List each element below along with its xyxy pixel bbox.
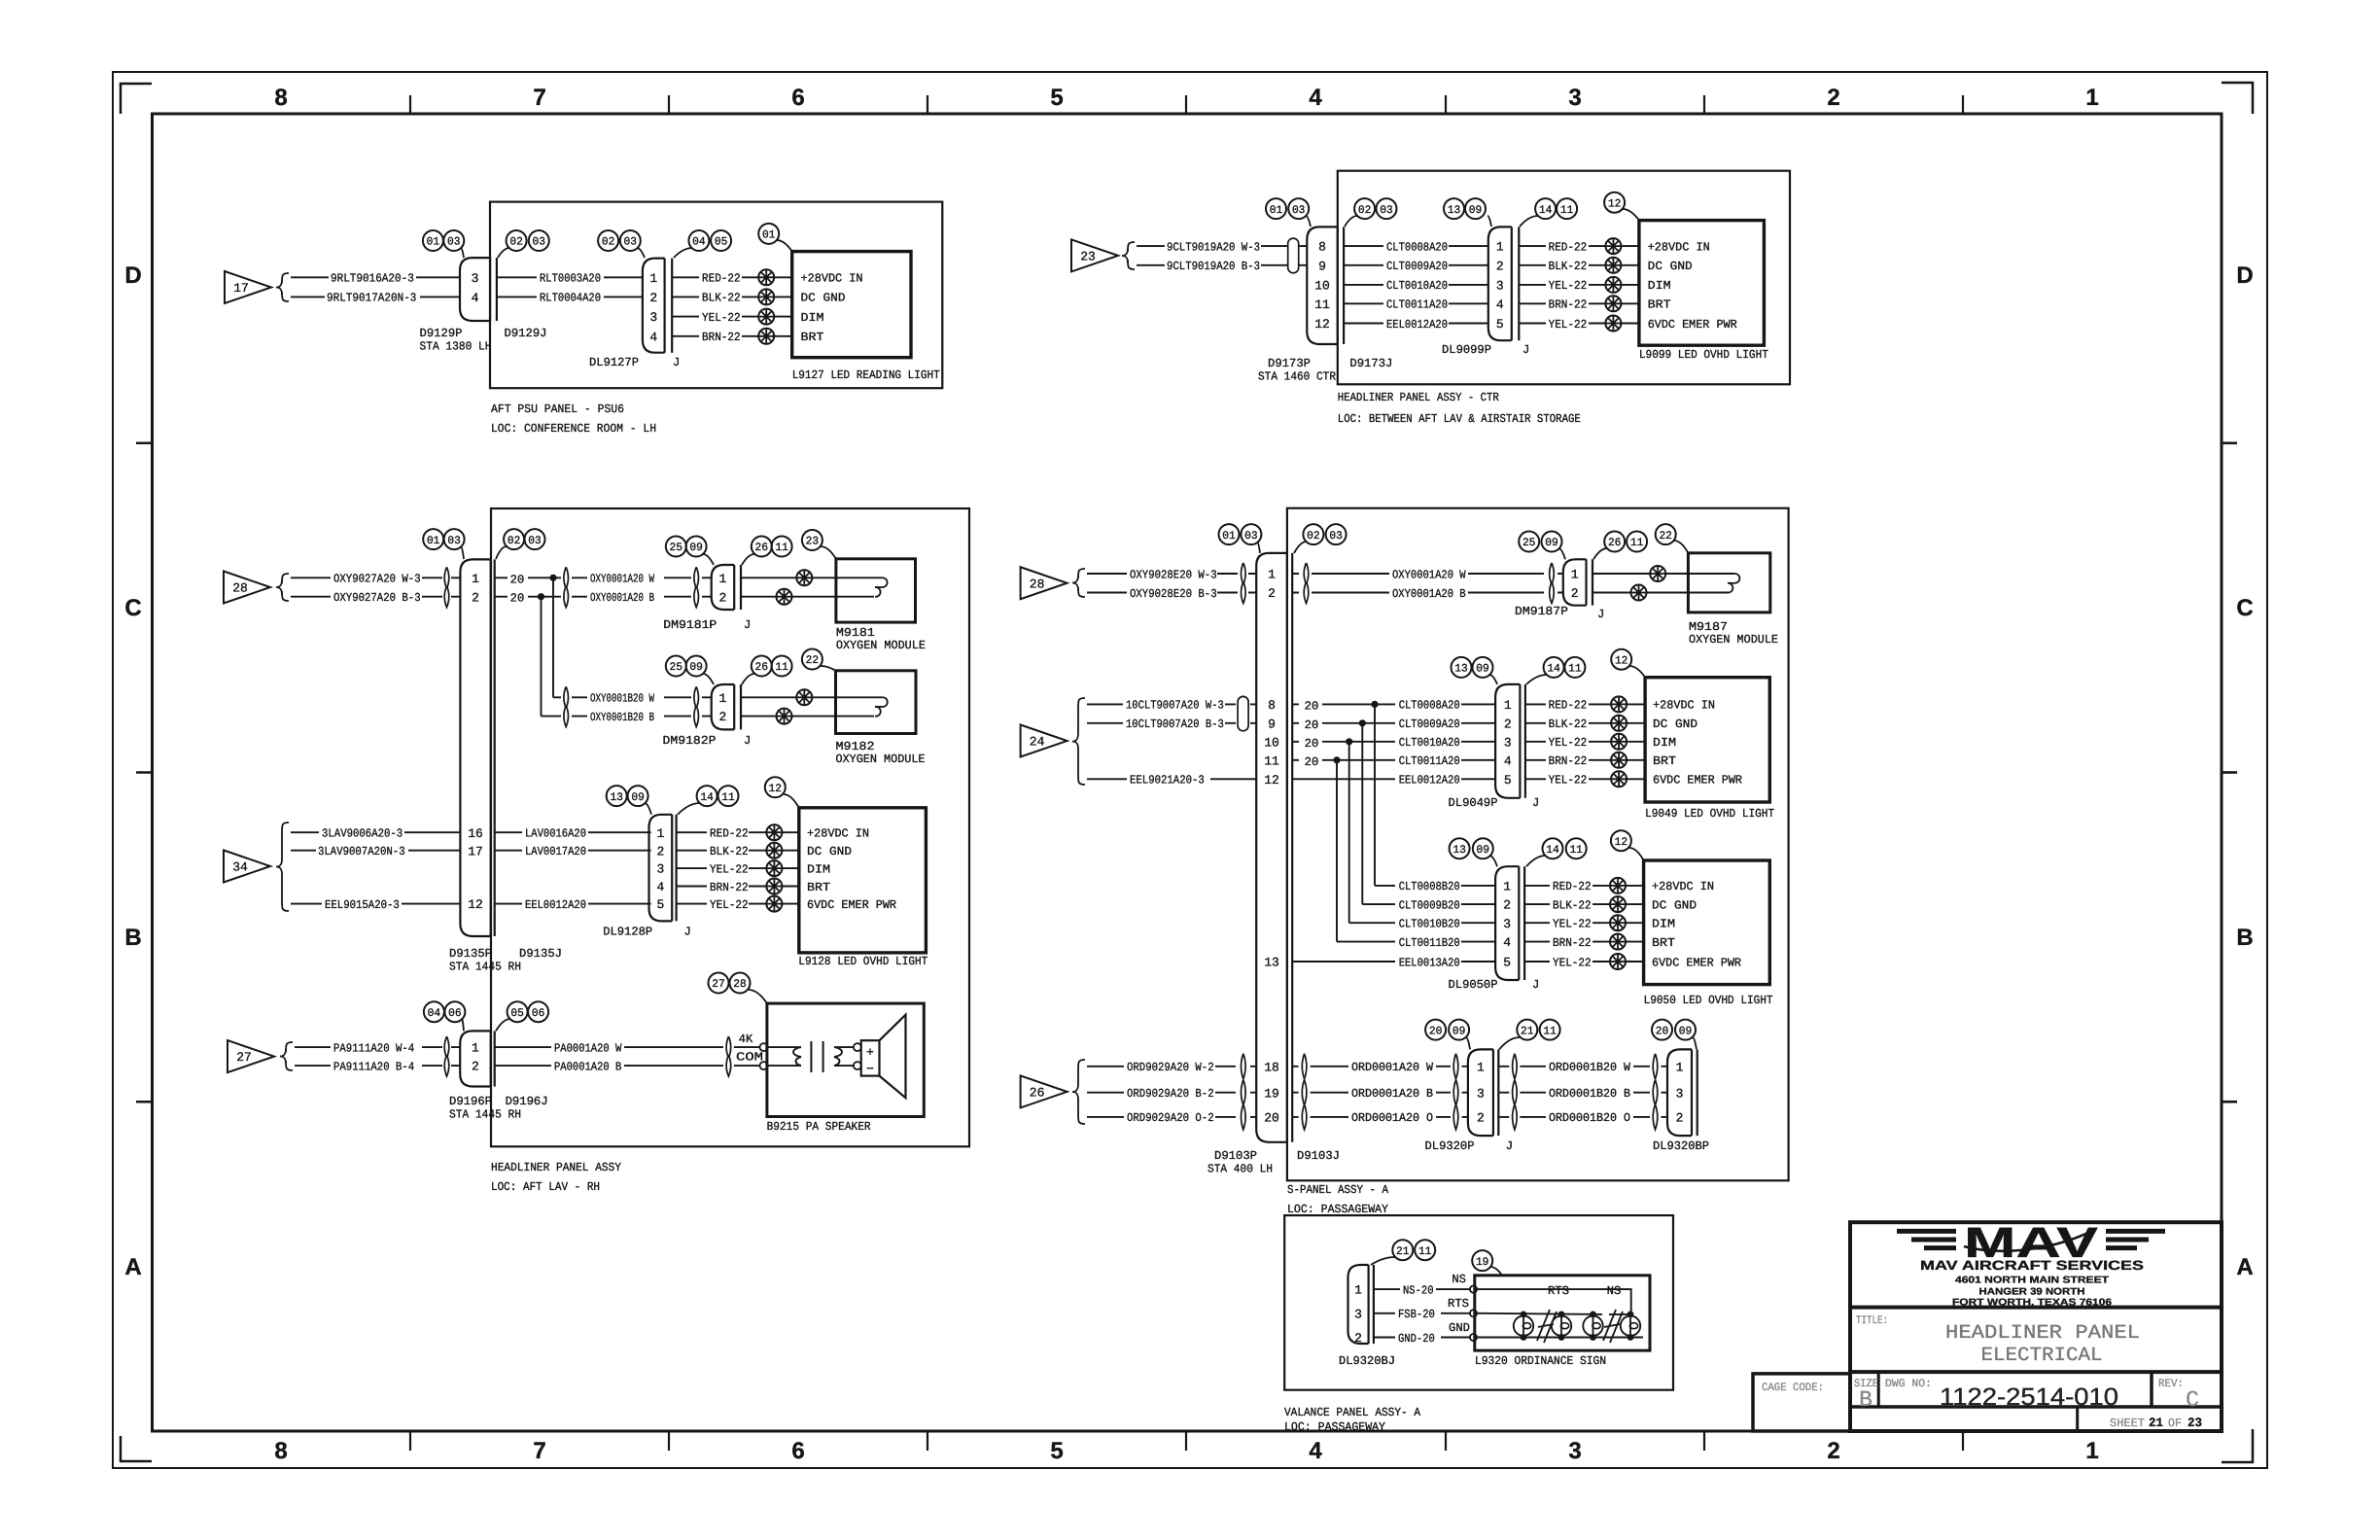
svg-text:DIM: DIM xyxy=(807,862,830,876)
logo address line 3 xyxy=(1952,1298,2113,1309)
svg-text:FORT WORTH, TEXAS 76106: FORT WORTH, TEXAS 76106 xyxy=(1952,1298,2113,1309)
wire 9RLT9017A20N-3 xyxy=(291,292,460,305)
label DM9182P xyxy=(663,734,717,748)
label D9103P STA 400 LH xyxy=(1207,1149,1273,1176)
svg-text:BLK-22: BLK-22 xyxy=(710,845,749,858)
svg-text:09: 09 xyxy=(1476,663,1489,676)
terminal B9215 COM xyxy=(760,1062,768,1069)
wire OXY0001A20 W right xyxy=(1292,568,1563,581)
wire to M9181 pin1 xyxy=(741,570,882,585)
wire PA0001A20 W xyxy=(495,1041,759,1055)
wire CLT0008A20 xyxy=(1344,240,1488,254)
twist symbol PA0001A20 pair xyxy=(726,1036,731,1076)
ref circles 27 28 at B9215 xyxy=(709,973,767,1004)
svg-text:1: 1 xyxy=(472,572,479,586)
svg-text:D9173P: D9173P xyxy=(1268,357,1311,370)
svg-text:1: 1 xyxy=(1504,698,1512,713)
wire to M9182 pin1 xyxy=(741,689,882,705)
svg-text:DL9127P: DL9127P xyxy=(589,356,639,369)
ref circles 14 11 at DL9099P J xyxy=(1520,198,1577,227)
svg-text:VALANCE PANEL ASSY- A: VALANCE PANEL ASSY- A xyxy=(1284,1406,1421,1419)
wire NS rail xyxy=(1477,1289,1631,1337)
svg-text:11: 11 xyxy=(1630,537,1644,549)
wire BLK-22 to L9050 xyxy=(1524,898,1644,912)
ref circle 12 at L9050 xyxy=(1611,830,1644,860)
wire EEL0013A20 xyxy=(1292,956,1495,969)
label DL9050P xyxy=(1449,978,1498,992)
label DM9181P xyxy=(663,618,717,632)
svg-text:STA 1460 CTR: STA 1460 CTR xyxy=(1258,370,1336,384)
svg-text:BRN-22: BRN-22 xyxy=(710,881,749,894)
wire YEL-22 to L9128 xyxy=(677,862,799,876)
svg-text:03: 03 xyxy=(1244,530,1258,542)
shield symbol 9CLT9019A20 pair xyxy=(1288,238,1299,273)
svg-text:24: 24 xyxy=(1030,735,1045,750)
device box M9182 xyxy=(836,671,917,734)
svg-text:RED-22: RED-22 xyxy=(1549,699,1588,713)
wire CLT0010A20 xyxy=(1344,279,1488,293)
device box M9187 xyxy=(1688,553,1769,612)
corner trim mark bottom-left xyxy=(121,1436,152,1461)
svg-text:20: 20 xyxy=(1656,1025,1669,1037)
svg-text:8: 8 xyxy=(274,85,287,111)
svg-text:DIM: DIM xyxy=(1652,918,1675,931)
svg-text:27: 27 xyxy=(236,1050,252,1065)
logo address line 1 xyxy=(1955,1276,2109,1286)
svg-text:4: 4 xyxy=(1503,935,1511,950)
ref circles 25 09 at DM9181P xyxy=(666,537,714,566)
label J at DL9320P xyxy=(1506,1139,1513,1153)
terminal label RTS xyxy=(1448,1297,1469,1311)
wire 10CLT9007A20 B-3 xyxy=(1087,717,1256,731)
assembly box AFT PSU PANEL - PSU6 xyxy=(490,202,942,389)
wire OXY9028E20 W-3 xyxy=(1087,568,1256,581)
svg-text:26: 26 xyxy=(755,661,769,674)
svg-text:LOC: AFT LAV - RH: LOC: AFT LAV - RH xyxy=(491,1180,600,1194)
label J at DL9049P xyxy=(1532,796,1539,810)
svg-text:01: 01 xyxy=(762,229,776,242)
title block h-divider logo/title xyxy=(1850,1306,2222,1310)
ref circle 12 at L9128 xyxy=(765,777,799,808)
label D9135P STA 1445 RH xyxy=(449,947,521,974)
svg-text:14: 14 xyxy=(1547,663,1560,676)
flag 17 xyxy=(225,271,271,303)
svg-text:25: 25 xyxy=(1522,537,1536,549)
wire EEL0012A20 xyxy=(1344,318,1488,332)
svg-text:20: 20 xyxy=(510,592,525,606)
svg-text:ORD0001A20 O: ORD0001A20 O xyxy=(1351,1111,1433,1125)
svg-text:TITLE:: TITLE: xyxy=(1856,1314,1888,1327)
svg-text:1: 1 xyxy=(719,572,727,586)
svg-text:20: 20 xyxy=(1305,737,1319,751)
label M9181 OXYGEN MODULE xyxy=(836,626,926,652)
twist symbol OXY0001A20 at labels xyxy=(564,567,569,607)
transformer B9215 primary xyxy=(768,1047,802,1066)
svg-text:STA 400 LH: STA 400 LH xyxy=(1207,1163,1273,1176)
connector DL9320P xyxy=(1468,1049,1498,1136)
wire RLT0003A20 xyxy=(497,272,643,286)
svg-text:EEL0012A20: EEL0012A20 xyxy=(1399,774,1460,787)
svg-text:PA0001A20 W: PA0001A20 W xyxy=(554,1041,622,1055)
ref circles 02 03 at D9129J xyxy=(498,230,549,258)
svg-text:CLT0008A20: CLT0008A20 xyxy=(1386,240,1448,254)
label J at DM9182P xyxy=(744,734,751,748)
device box B9215 xyxy=(767,1003,924,1116)
label D9173J xyxy=(1349,357,1392,370)
lamp YEL-22 L9127 xyxy=(758,309,774,325)
svg-text:ORD0001B20 W: ORD0001B20 W xyxy=(1549,1061,1631,1074)
caption S-PANEL ASSY - A xyxy=(1287,1183,1389,1216)
svg-text:CLT0008B20: CLT0008B20 xyxy=(1399,880,1460,893)
wire YEL-22 to L9128 xyxy=(677,898,799,912)
connector D9129P / D9129J xyxy=(460,258,497,321)
svg-text:MAV AIRCRAFT SERVICES: MAV AIRCRAFT SERVICES xyxy=(1920,1258,2144,1273)
svg-text:6: 6 xyxy=(791,1438,804,1464)
svg-text:1122-2514-010: 1122-2514-010 xyxy=(1940,1383,2118,1411)
ref circles 26 11 at DM9182P J xyxy=(742,656,792,685)
wire PA9111A20 W-4 xyxy=(295,1041,460,1055)
svg-text:CLT0011A20: CLT0011A20 xyxy=(1386,298,1448,312)
label D9135J xyxy=(519,947,562,961)
label DL9128P xyxy=(603,926,652,939)
wire LAV0017A20 xyxy=(495,845,651,858)
ref circles 04 06 at D9196P xyxy=(424,1001,466,1031)
title block h-divider dwg/sheet xyxy=(1850,1405,2222,1409)
svg-text:03: 03 xyxy=(447,535,461,547)
wire gauge 20 pin8 xyxy=(1292,699,1375,713)
assembly box HEADLINER PANEL ASSY - CTR xyxy=(1338,171,1790,385)
svg-text:D9129J: D9129J xyxy=(505,327,547,340)
svg-text:12: 12 xyxy=(769,783,783,795)
lamp YEL-22 L9099 xyxy=(1605,316,1621,332)
lamp BLK-22 L9099 xyxy=(1605,258,1621,273)
lamp BRN-22 L9049 xyxy=(1611,752,1627,768)
ref circles 01 03 at D9129P xyxy=(423,230,464,258)
svg-text:BRT: BRT xyxy=(801,331,824,344)
label CAGE CODE xyxy=(1762,1382,1824,1394)
wire YEL-22 to L9050 xyxy=(1524,918,1644,931)
svg-text:28: 28 xyxy=(733,978,747,991)
label REV xyxy=(2158,1378,2184,1390)
lamp YEL-22 L9049 xyxy=(1611,734,1627,750)
svg-text:+28VDC IN: +28VDC IN xyxy=(807,827,869,841)
svg-text:OXY9028E20 W-3: OXY9028E20 W-3 xyxy=(1130,568,1217,581)
svg-text:ELECTRICAL: ELECTRICAL xyxy=(1981,1345,2103,1367)
flag 28 left xyxy=(224,572,270,604)
svg-text:J: J xyxy=(1532,978,1539,992)
ref circle 23 at M9181 xyxy=(802,530,836,559)
svg-text:02: 02 xyxy=(507,535,521,547)
svg-text:DL9049P: DL9049P xyxy=(1449,796,1498,810)
label DWG NO xyxy=(1885,1378,1932,1390)
brace flag 27 xyxy=(280,1042,293,1070)
lamp BLK-22 L9050 xyxy=(1610,896,1626,912)
svg-text:21: 21 xyxy=(1396,1245,1410,1258)
svg-text:CLT0011B20: CLT0011B20 xyxy=(1399,936,1460,950)
wire ORD0001A20 W xyxy=(1292,1061,1468,1074)
svg-text:1: 1 xyxy=(1571,568,1579,582)
svg-text:14: 14 xyxy=(1546,844,1559,857)
svg-text:NS: NS xyxy=(1607,1284,1622,1298)
svg-text:25: 25 xyxy=(670,661,683,674)
svg-text:01: 01 xyxy=(1222,530,1236,542)
pin labels L9050 xyxy=(1652,880,1741,969)
svg-text:03: 03 xyxy=(447,236,461,249)
svg-text:02: 02 xyxy=(1307,530,1320,542)
svg-text:D9196J: D9196J xyxy=(506,1095,548,1108)
twist symbol OXY9028E20 pair xyxy=(1242,563,1246,604)
svg-text:4: 4 xyxy=(1309,1438,1322,1464)
wire gauge 20 pin10 xyxy=(1292,737,1349,751)
lamp RED-22 L9128 xyxy=(766,824,782,840)
svg-text:10: 10 xyxy=(1264,735,1279,750)
svg-text:M9182: M9182 xyxy=(836,740,875,753)
lamp YEL-22 L9128 xyxy=(766,860,782,876)
wire gauge 20 pin2 xyxy=(495,592,538,606)
svg-text:OXY0001B20 B: OXY0001B20 B xyxy=(590,711,654,724)
ref circles 02 03 at DL9127P xyxy=(598,230,645,258)
svg-text:8: 8 xyxy=(1268,698,1276,713)
svg-text:10CLT9007A20 B-3: 10CLT9007A20 B-3 xyxy=(1126,717,1224,731)
wire RED-22 to L9128 xyxy=(677,827,799,841)
svg-text:34: 34 xyxy=(232,860,248,875)
svg-text:RED-22: RED-22 xyxy=(702,272,741,286)
label L9050 LED OVHD LIGHT xyxy=(1644,994,1773,1007)
wire 9CLT9019A20 B-3 xyxy=(1137,260,1307,273)
zone column numbers xyxy=(274,85,2098,1464)
svg-text:4601 NORTH MAIN STREET: 4601 NORTH MAIN STREET xyxy=(1955,1276,2109,1286)
lamp RED-22 L9049 xyxy=(1611,696,1627,712)
terminal B9215 4K xyxy=(760,1043,768,1051)
svg-text:LAV0017A20: LAV0017A20 xyxy=(525,845,586,858)
flag 28 right xyxy=(1021,567,1067,599)
svg-text:NS-20: NS-20 xyxy=(1403,1283,1434,1297)
wire OXY0001A20 W xyxy=(550,573,712,586)
corner trim mark top-left xyxy=(121,84,152,114)
svg-text:YEL-22: YEL-22 xyxy=(702,311,741,325)
brace flag 23 xyxy=(1122,242,1135,269)
twist symbol ORD0001A20 at DL9320P xyxy=(1453,1054,1458,1130)
svg-text:3: 3 xyxy=(1496,279,1504,294)
wire gauge 20 pin9 xyxy=(1292,718,1362,732)
wire ORD0001B20 B xyxy=(1498,1087,1667,1101)
caption VALANCE PANEL ASSY - A xyxy=(1284,1406,1421,1434)
title text HEADLINER PANEL xyxy=(1945,1322,2140,1345)
twist symbol ORD0001B20 at DL9320BP xyxy=(1653,1054,1658,1130)
svg-text:26: 26 xyxy=(1608,537,1622,549)
svg-text:1: 1 xyxy=(1268,568,1276,582)
svg-text:4K: 4K xyxy=(739,1032,753,1046)
device box L9099 xyxy=(1639,221,1765,346)
svg-text:3: 3 xyxy=(1568,1438,1581,1464)
svg-text:BRN-22: BRN-22 xyxy=(1549,298,1588,312)
ref circles 14 11 at DL9050P J xyxy=(1526,838,1587,866)
svg-text:L9099 LED OVHD LIGHT: L9099 LED OVHD LIGHT xyxy=(1639,348,1768,362)
svg-text:AFT PSU PANEL - PSU6: AFT PSU PANEL - PSU6 xyxy=(491,402,624,416)
svg-text:20: 20 xyxy=(510,573,525,586)
lamp BRN-22 L9099 xyxy=(1605,296,1621,311)
title block outer box xyxy=(1850,1222,2222,1431)
twist symbol ORD0001A20 at J xyxy=(1302,1054,1307,1130)
svg-text:YEL-22: YEL-22 xyxy=(1549,318,1588,332)
wire BRN-22 to L9049 xyxy=(1525,754,1645,768)
svg-text:PA0001A20 B: PA0001A20 B xyxy=(554,1060,621,1073)
svg-text:A: A xyxy=(2236,1254,2253,1280)
lamp YEL-22 L9050 xyxy=(1610,954,1626,969)
ref circles 13 09 at DL9050P xyxy=(1450,838,1497,866)
svg-text:LAV0016A20: LAV0016A20 xyxy=(525,827,586,841)
svg-text:03: 03 xyxy=(624,236,638,249)
svg-text:4: 4 xyxy=(656,880,664,894)
rev letter C xyxy=(2186,1387,2199,1413)
svg-text:12: 12 xyxy=(468,897,483,912)
svg-text:09: 09 xyxy=(689,542,703,554)
svg-text:D9103P: D9103P xyxy=(1214,1149,1257,1163)
wire OXY9027A20 W-3 xyxy=(291,573,460,586)
svg-text:STA 1445 RH: STA 1445 RH xyxy=(449,961,521,974)
pin labels L9127 xyxy=(801,272,863,345)
wire RED-22 to L9127 xyxy=(672,272,792,286)
label J at DL9127P xyxy=(673,356,680,369)
twist symbol OXY9027A20 pair xyxy=(444,567,449,607)
svg-text:10CLT9007A20 W-3: 10CLT9007A20 W-3 xyxy=(1126,699,1224,713)
svg-text:25: 25 xyxy=(670,542,683,554)
svg-text:OXYGEN MODULE: OXYGEN MODULE xyxy=(1689,633,1778,647)
break slashes RTS xyxy=(1537,1310,1557,1343)
svg-text:1: 1 xyxy=(1676,1060,1684,1074)
svg-text:2: 2 xyxy=(719,590,727,605)
connector DM9182P xyxy=(712,684,741,729)
device box L9050 xyxy=(1644,860,1770,985)
svg-text:3: 3 xyxy=(1503,917,1511,931)
svg-text:06: 06 xyxy=(448,1007,462,1020)
svg-text:J: J xyxy=(1506,1139,1513,1153)
receptacle curl M9187 xyxy=(1728,574,1739,593)
svg-text:OXYGEN MODULE: OXYGEN MODULE xyxy=(836,639,926,652)
label DM9187P xyxy=(1515,605,1568,618)
svg-text:RLT0004A20: RLT0004A20 xyxy=(540,292,601,305)
wire drop OXY0001B20 B xyxy=(542,597,588,717)
svg-text:STA 1445 RH: STA 1445 RH xyxy=(449,1108,521,1122)
svg-text:RTS: RTS xyxy=(1448,1297,1469,1311)
svg-text:13: 13 xyxy=(1452,844,1466,857)
svg-text:J: J xyxy=(684,926,691,939)
label D9129P STA 1380 LH xyxy=(420,327,492,354)
junction dot CLT0009A20 xyxy=(1359,719,1366,726)
svg-text:27: 27 xyxy=(712,978,725,991)
svg-text:04: 04 xyxy=(692,236,706,249)
wire drop OXY0001B20 W xyxy=(553,577,587,697)
svg-text:2: 2 xyxy=(472,590,479,605)
svg-text:HEADLINER PANEL: HEADLINER PANEL xyxy=(1945,1322,2140,1345)
svg-text:BLK-22: BLK-22 xyxy=(1549,260,1588,273)
twist symbol OXY0001B20 at labels xyxy=(564,686,569,726)
svg-text:DL9050P: DL9050P xyxy=(1449,978,1498,992)
title block h-divider title/dwg xyxy=(1850,1370,2222,1374)
svg-text:7: 7 xyxy=(533,85,545,111)
svg-text:PA9111A20 W-4: PA9111A20 W-4 xyxy=(333,1041,414,1055)
logo MAV letters xyxy=(1964,1219,2099,1267)
svg-text:L9128 LED OVHD LIGHT: L9128 LED OVHD LIGHT xyxy=(798,955,927,968)
label D9196J xyxy=(506,1095,548,1108)
svg-text:ORD0001A20 W: ORD0001A20 W xyxy=(1351,1061,1434,1074)
svg-text:ORD9029A20 W-2: ORD9029A20 W-2 xyxy=(1127,1061,1214,1074)
svg-text:03: 03 xyxy=(1329,530,1343,542)
svg-text:RED-22: RED-22 xyxy=(710,827,749,841)
svg-text:9: 9 xyxy=(1318,259,1326,273)
lamp BLK-22 L9049 xyxy=(1611,716,1627,731)
svg-text:+28VDC IN: +28VDC IN xyxy=(801,272,863,286)
terminal speaker minus xyxy=(854,1062,861,1069)
svg-text:EEL9015A20-3: EEL9015A20-3 xyxy=(325,898,400,912)
svg-text:YEL-22: YEL-22 xyxy=(1549,736,1588,750)
svg-text:C: C xyxy=(2186,1387,2199,1413)
svg-text:09: 09 xyxy=(689,661,703,674)
wire YEL-22 to L9050 xyxy=(1524,956,1644,969)
connector D9173P / D9173J xyxy=(1307,227,1344,344)
assembly box S-PANEL ASSY - A xyxy=(1287,508,1789,1181)
svg-text:16: 16 xyxy=(468,826,483,841)
svg-text:03: 03 xyxy=(528,535,542,547)
wire OXY0001B20 W xyxy=(590,692,712,706)
svg-text:NS: NS xyxy=(1452,1273,1466,1286)
dwg number 1122-2514-010 xyxy=(1940,1383,2118,1411)
label M9182 OXYGEN MODULE xyxy=(836,740,926,766)
ref circles 01 03 at D9173P xyxy=(1266,198,1311,227)
title block v-divider size xyxy=(1877,1372,1880,1407)
svg-text:J: J xyxy=(744,618,751,632)
wire EEL9021A20-3 xyxy=(1087,774,1256,787)
connector DL9050P xyxy=(1495,866,1524,980)
svg-text:4: 4 xyxy=(1504,753,1512,768)
svg-text:3: 3 xyxy=(1477,1086,1485,1101)
label L9099 LED OVHD LIGHT xyxy=(1639,348,1768,362)
svg-text:YEL-22: YEL-22 xyxy=(1553,956,1592,969)
svg-text:20: 20 xyxy=(1305,755,1319,769)
svg-text:1: 1 xyxy=(656,826,664,841)
connector DM9187P xyxy=(1563,559,1592,605)
lamp BLK-22 L9128 xyxy=(766,843,782,858)
svg-text:1: 1 xyxy=(719,691,727,706)
svg-text:2: 2 xyxy=(472,1060,479,1074)
device box L9049 xyxy=(1645,678,1769,802)
ref circles 25 09 at DM9182P xyxy=(666,656,714,685)
svg-text:J: J xyxy=(1522,343,1529,357)
svg-text:20: 20 xyxy=(1305,718,1319,732)
svg-text:18: 18 xyxy=(1264,1060,1279,1074)
wire OXY0001A20 B xyxy=(544,591,712,605)
svg-text:DL9128P: DL9128P xyxy=(603,926,652,939)
svg-text:13: 13 xyxy=(1264,956,1279,970)
svg-text:DC GND: DC GND xyxy=(801,292,846,305)
ref circles 13 09 at DL9099P xyxy=(1444,198,1491,227)
caption HEADLINER PANEL ASSY - CTR xyxy=(1338,391,1581,426)
svg-text:09: 09 xyxy=(631,791,645,804)
ref circles 05 06 at D9196J xyxy=(496,1001,548,1031)
svg-text:09: 09 xyxy=(1469,204,1483,217)
svg-text:11: 11 xyxy=(1543,1025,1557,1037)
svg-text:1: 1 xyxy=(472,1041,479,1056)
svg-text:YEL-22: YEL-22 xyxy=(710,898,749,912)
svg-text:17: 17 xyxy=(468,844,483,858)
wire RLT0004A20 xyxy=(497,292,643,305)
svg-text:D9196P: D9196P xyxy=(449,1095,492,1108)
svg-text:11: 11 xyxy=(1418,1245,1432,1258)
ref circles 04 05 at DL9127P J xyxy=(674,230,731,258)
svg-text:RED-22: RED-22 xyxy=(1549,240,1588,254)
svg-text:D: D xyxy=(2236,262,2253,289)
svg-text:20: 20 xyxy=(1305,699,1319,713)
